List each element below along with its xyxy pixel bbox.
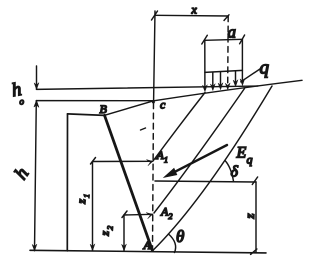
dashed vertical line C to A — [153, 103, 154, 249]
svg-text:E: E — [236, 145, 247, 162]
z1 extension line at A1 level — [91, 158, 153, 166]
z2 extension line at A2 level — [122, 211, 153, 219]
label q leader line — [241, 68, 262, 82]
svg-text:δ: δ — [231, 164, 239, 181]
dashed center line of load strip with bottom arrow — [225, 16, 230, 90]
lower h0 horizontal line — [37, 100, 154, 102]
svg-text:q: q — [247, 153, 253, 167]
svg-text:2: 2 — [169, 212, 173, 221]
svg-text:z: z — [242, 213, 257, 220]
ground surface line B to C — [105, 101, 154, 116]
load strip left edge with arrow — [203, 40, 208, 91]
delta horizontal reference line — [155, 181, 256, 182]
wall left face — [66, 114, 68, 251]
z2 dimension vertical — [122, 215, 127, 251]
delta angle arc — [225, 161, 234, 182]
label z2 rotated — [97, 225, 114, 237]
svg-text:x: x — [191, 3, 198, 17]
extension line from x dim down to C — [154, 11, 155, 101]
svg-text:B: B — [100, 102, 108, 116]
force arrow Eq — [164, 145, 227, 177]
svg-text:o: o — [20, 97, 25, 107]
h0 dimension vertical with arrows — [34, 66, 39, 107]
svg-text:c: c — [160, 98, 166, 112]
load arrow 3 — [218, 72, 223, 90]
load strip right edge with arrow — [240, 39, 245, 85]
wall top edge — [68, 114, 105, 116]
svg-text:1: 1 — [164, 156, 168, 165]
svg-text:a: a — [228, 23, 237, 42]
z1 dimension vertical — [90, 162, 95, 251]
load top line — [205, 70, 243, 72]
dimension a line — [202, 35, 245, 44]
svg-text:1: 1 — [82, 194, 91, 199]
dimension x line — [152, 11, 230, 21]
h dimension vertical line with arrows — [32, 101, 39, 251]
svg-text:2: 2 — [106, 226, 115, 231]
slip line from A2 to load right edge — [154, 89, 245, 214]
wall back face B-A thick — [105, 115, 153, 250]
load arrow 2 — [210, 72, 215, 90]
svg-text:θ: θ — [176, 227, 184, 246]
ground surface line C to right edge — [154, 80, 302, 101]
load arrow 5 — [233, 71, 238, 87]
bottom base line — [30, 250, 266, 253]
theta angle arc at A — [169, 234, 176, 253]
node C dot — [152, 101, 155, 104]
label z1 rotated — [74, 193, 91, 205]
slip line from A1 to load left edge — [153, 93, 205, 162]
small tick below BC line — [141, 128, 146, 130]
z dimension vertical right — [251, 177, 258, 254]
rupture line from A at angle theta — [153, 86, 272, 251]
svg-text:q: q — [260, 58, 270, 79]
svg-text:A: A — [143, 238, 152, 252]
upper h0 horizontal line — [37, 86, 259, 89]
